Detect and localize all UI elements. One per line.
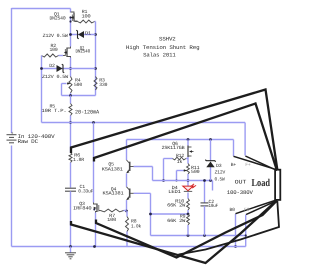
svg-text:Z12V 0.5W: Z12V 0.5W — [43, 33, 68, 39]
svg-text:Load: Load — [252, 178, 271, 189]
svg-text:High Tension Shunt Reg: High Tension Shunt Reg — [126, 44, 200, 51]
svg-text:D2: D2 — [49, 63, 55, 69]
svg-text:66K 2W: 66K 2W — [167, 202, 185, 208]
svg-text:IRF840: IRF840 — [73, 206, 92, 212]
svg-text:F0: F0 — [244, 207, 250, 213]
svg-text:LED1: LED1 — [168, 189, 181, 195]
svg-text:10R T.P.: 10R T.P. — [42, 108, 67, 114]
svg-text:0.5W: 0.5W — [215, 177, 225, 183]
svg-text:+: + — [11, 131, 14, 136]
svg-text:KSA1381: KSA1381 — [102, 167, 123, 173]
svg-text:Salas 2011: Salas 2011 — [143, 52, 176, 59]
svg-text:500: 500 — [191, 169, 200, 175]
svg-text:330: 330 — [99, 82, 107, 88]
svg-text:Z12V 0.5W: Z12V 0.5W — [42, 74, 68, 80]
svg-text:D3: D3 — [216, 163, 222, 169]
svg-text:Raw DC: Raw DC — [18, 138, 39, 145]
svg-text:B+: B+ — [231, 162, 237, 168]
svg-text:100: 100 — [50, 47, 58, 53]
svg-text:10uF: 10uF — [209, 203, 219, 209]
svg-text:500: 500 — [74, 82, 82, 88]
svg-text:Z12V: Z12V — [215, 169, 226, 175]
svg-text:F+: F+ — [245, 162, 251, 168]
svg-text:100-380V: 100-380V — [227, 189, 254, 196]
svg-text:0.33uF: 0.33uF — [78, 189, 93, 195]
svg-text:2SK117GB: 2SK117GB — [162, 145, 185, 151]
svg-text:1.0k: 1.0k — [131, 224, 141, 230]
svg-text:D1: D1 — [85, 30, 91, 36]
svg-text:OUT: OUT — [235, 179, 248, 186]
svg-text:100: 100 — [107, 217, 116, 223]
svg-text:100: 100 — [82, 13, 91, 19]
svg-text:66K 2W: 66K 2W — [167, 218, 185, 224]
svg-text:DN2540: DN2540 — [76, 48, 91, 54]
svg-text:R12: R12 — [176, 153, 184, 159]
svg-text:1.8R: 1.8R — [73, 157, 84, 163]
svg-text:1k: 1k — [177, 159, 183, 165]
svg-text:SSHV2: SSHV2 — [159, 36, 176, 43]
svg-text:B0: B0 — [230, 207, 236, 213]
svg-text:DN2540: DN2540 — [50, 15, 66, 21]
svg-text:KSA1381: KSA1381 — [103, 191, 124, 197]
svg-text:20-120mA: 20-120mA — [75, 109, 100, 116]
